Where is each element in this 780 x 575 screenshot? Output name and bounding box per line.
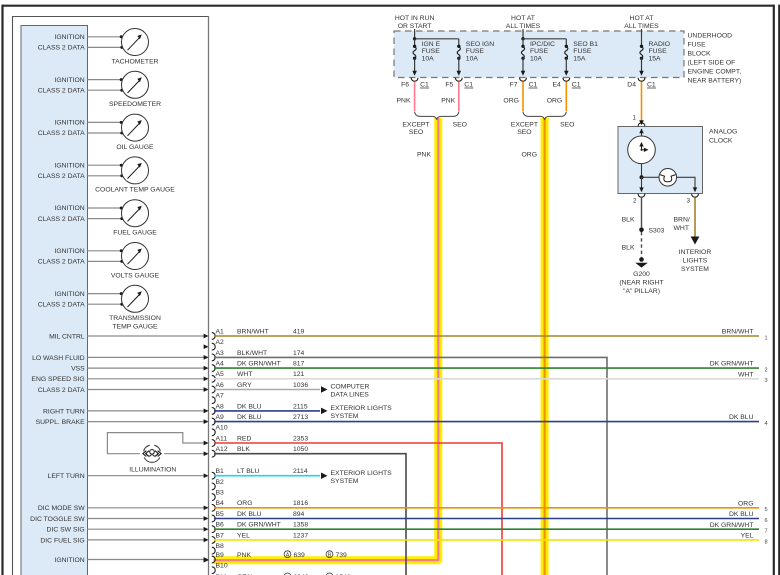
svg-text:ENGINE COMPT,: ENGINE COMPT,	[688, 69, 742, 76]
svg-text:ORG: ORG	[547, 98, 562, 105]
svg-text:INTERIOR: INTERIOR	[679, 249, 712, 256]
svg-text:ENG SPEED SIG: ENG SPEED SIG	[31, 376, 84, 383]
svg-text:IGNITION: IGNITION	[54, 205, 84, 212]
svg-text:(NEAR RIGHT: (NEAR RIGHT	[619, 280, 663, 287]
bus wire F7-E4	[523, 38, 566, 40]
svg-text:VOLTS GAUGE: VOLTS GAUGE	[111, 272, 160, 279]
svg-text:ALL TIMES: ALL TIMES	[624, 23, 659, 30]
svg-text:DK BLU: DK BLU	[237, 414, 262, 421]
analog clock component box	[618, 127, 703, 194]
connector pin A8	[212, 403, 308, 414]
svg-text:SUPPL. BRAKE: SUPPL. BRAKE	[36, 419, 86, 426]
ground G200	[619, 257, 663, 295]
svg-text:DK BLU: DK BLU	[237, 403, 262, 410]
svg-text:YEL: YEL	[741, 533, 754, 540]
connector pin A6	[212, 382, 309, 393]
svg-text:2: 2	[633, 198, 637, 205]
clock illumination bulb	[659, 169, 677, 187]
svg-text:A1: A1	[216, 328, 225, 335]
svg-text:BLK/WHT: BLK/WHT	[237, 350, 267, 357]
svg-text:FUSE: FUSE	[422, 48, 441, 55]
connector pin B1	[212, 468, 308, 479]
svg-text:CLASS 2 DATA: CLASS 2 DATA	[38, 216, 85, 223]
svg-text:RADIO: RADIO	[649, 41, 671, 48]
svg-text:A11: A11	[216, 435, 228, 442]
cluster signal wire: ENG SPEED SIG to pin A5	[31, 376, 208, 383]
svg-text:TEMP GAUGE: TEMP GAUGE	[112, 324, 158, 331]
wire ORG from E4	[565, 82, 567, 112]
svg-text:FUSE: FUSE	[688, 42, 707, 49]
svg-text:ALL TIMES: ALL TIMES	[506, 23, 541, 30]
svg-text:IGNITION: IGNITION	[54, 248, 84, 255]
wire DK GRN/WHT 1358 from pin B6 to right edge	[214, 528, 759, 530]
svg-text:419: 419	[293, 328, 305, 335]
svg-text:ORG: ORG	[237, 500, 252, 507]
connector pin A7	[212, 393, 224, 404]
underhood fuse block (dashed box)	[394, 31, 684, 78]
svg-text:HOT AT: HOT AT	[511, 15, 535, 22]
svg-text:B2: B2	[216, 479, 225, 486]
wire DK BLU 2115 from pin A8 to EXTERIOR LIGHTS SYSTEM	[214, 405, 392, 420]
svg-text:10A: 10A	[422, 55, 435, 62]
svg-text:DK GRN/WHT: DK GRN/WHT	[237, 361, 281, 368]
svg-text:FUSE: FUSE	[530, 48, 549, 55]
svg-text:SEO: SEO	[560, 122, 574, 129]
svg-text:2114: 2114	[293, 468, 308, 475]
svg-text:DK BLU: DK BLU	[237, 511, 262, 518]
unused pin A2 stub arrow	[204, 344, 209, 349]
svg-text:TRANSMISSION: TRANSMISSION	[109, 315, 161, 322]
gauge: speedometer	[38, 71, 161, 108]
svg-text:DK GRN/WHT: DK GRN/WHT	[710, 522, 754, 529]
fuse block pin F6 / C1	[401, 78, 429, 89]
connector pin A5	[212, 371, 305, 382]
svg-text:IGNITION: IGNITION	[54, 120, 84, 127]
svg-text:SYSTEM: SYSTEM	[331, 478, 359, 485]
svg-text:SEO: SEO	[409, 129, 423, 136]
svg-text:A4: A4	[216, 361, 225, 368]
gauge: volts gauge	[38, 243, 160, 280]
svg-text:2353: 2353	[293, 435, 308, 442]
svg-text:IGN E: IGN E	[422, 41, 441, 48]
svg-text:CLOCK: CLOCK	[709, 138, 733, 145]
illumination lamp	[129, 445, 176, 473]
svg-text:IGNITION: IGNITION	[54, 291, 84, 298]
svg-text:1: 1	[765, 335, 768, 341]
clock pin 1	[638, 123, 645, 126]
gauge: coolant temp gauge	[38, 157, 176, 194]
svg-text:BLOCK: BLOCK	[688, 51, 712, 58]
svg-text:B7: B7	[216, 532, 225, 539]
svg-text:EXCEPT: EXCEPT	[511, 122, 538, 129]
clock internal wire to pin 2	[639, 177, 643, 192]
svg-text:5: 5	[765, 507, 768, 513]
highlighted ORG circuit: fuse pair down off-page (yellow highlight)	[541, 118, 549, 575]
svg-text:B5: B5	[216, 511, 225, 518]
svg-text:A5: A5	[216, 371, 225, 378]
svg-text:PNK: PNK	[237, 552, 251, 559]
svg-text:B: B	[328, 553, 332, 559]
svg-text:C1: C1	[572, 81, 581, 88]
cluster signal wire: DIC SW SIG to pin B6	[47, 527, 209, 534]
svg-text:RED: RED	[237, 435, 251, 442]
svg-text:BLK: BLK	[622, 217, 635, 224]
fuse RADIO 15A	[639, 39, 670, 76]
svg-text:2115: 2115	[293, 403, 308, 410]
svg-text:ORG: ORG	[522, 152, 537, 159]
partially visible pin B11 row	[237, 573, 351, 575]
svg-text:LEFT TURN: LEFT TURN	[48, 473, 85, 480]
wire WHT 121 from pin A5 to right edge	[214, 378, 759, 380]
svg-text:4: 4	[765, 421, 768, 427]
svg-text:DATA LINES: DATA LINES	[331, 392, 370, 399]
connector pin A10	[212, 425, 228, 436]
svg-text:S303: S303	[649, 227, 665, 234]
connector pin B8	[212, 543, 224, 554]
svg-text:10A: 10A	[466, 55, 479, 62]
svg-text:A2: A2	[216, 339, 225, 346]
wire BRN/WHT 419 from pin A1 to right edge	[214, 335, 759, 337]
gauge: oil gauge	[38, 114, 154, 151]
svg-text:10A: 10A	[530, 55, 543, 62]
fuse IGN E 10A	[412, 39, 440, 76]
svg-text:1050: 1050	[293, 446, 308, 453]
svg-text:DIC TOGGLE SW: DIC TOGGLE SW	[30, 516, 85, 523]
cluster signal wire: MIL CNTRL to pin A1	[49, 333, 208, 340]
svg-text:EXTERIOR LIGHTS: EXTERIOR LIGHTS	[331, 405, 393, 412]
bus wire F6-F5	[415, 38, 459, 40]
right-edge label ORG / continuation 5	[738, 500, 768, 513]
svg-text:15A: 15A	[573, 55, 586, 62]
connector pin B2	[212, 479, 224, 490]
ORG wires merge brace	[511, 112, 575, 136]
svg-text:WHT: WHT	[738, 371, 753, 378]
svg-text:LO WASH FLUID: LO WASH FLUID	[32, 355, 85, 362]
svg-text:TACHOMETER: TACHOMETER	[111, 58, 158, 65]
svg-text:VSS: VSS	[71, 366, 85, 373]
svg-text:894: 894	[293, 511, 305, 518]
svg-text:CLASS 2 DATA: CLASS 2 DATA	[38, 301, 85, 308]
right-edge label BRN/WHT / continuation 1	[722, 329, 768, 342]
svg-text:A3: A3	[216, 350, 225, 357]
svg-text:IGNITION: IGNITION	[54, 34, 84, 41]
clock internal wire to junction	[641, 164, 643, 178]
right-edge label DK GRN/WHT / continuation 7	[710, 522, 768, 535]
svg-text:D4: D4	[627, 81, 636, 88]
wire LT BLU 2114 from pin B1 to EXTERIOR LIGHTS SYSTEM	[214, 470, 392, 485]
connector pin A1	[212, 328, 305, 339]
wire BLK from clock pin 2	[622, 198, 642, 228]
junction node	[640, 175, 644, 179]
svg-text:CLASS 2 DATA: CLASS 2 DATA	[38, 87, 85, 94]
feed: HOT IN RUN OR START	[395, 15, 435, 40]
wire junction to lamp	[642, 176, 660, 178]
svg-text:LIGHTS: LIGHTS	[683, 258, 708, 265]
svg-text:PNK: PNK	[397, 98, 411, 105]
svg-text:IGNITION: IGNITION	[54, 162, 84, 169]
svg-text:2713: 2713	[293, 414, 308, 421]
connector pin B6	[212, 522, 309, 533]
svg-text:ILLUMINATION: ILLUMINATION	[129, 467, 176, 474]
svg-text:BLK: BLK	[622, 245, 635, 252]
gauge: tachometer	[38, 29, 159, 66]
svg-text:F6: F6	[401, 81, 409, 88]
svg-text:WHT: WHT	[237, 371, 252, 378]
svg-text:"A" PILLAR): "A" PILLAR)	[623, 288, 660, 295]
cluster signal-name strip (blue box)	[21, 26, 88, 575]
svg-text:CLASS 2 DATA: CLASS 2 DATA	[38, 387, 85, 394]
svg-text:A: A	[286, 553, 290, 559]
connector pin B9	[212, 552, 252, 563]
underhood fuse block caption	[688, 33, 742, 85]
connector pin A11	[212, 435, 309, 446]
arrow to interior lights system	[679, 237, 712, 274]
splice S303	[639, 227, 664, 234]
svg-text:A6: A6	[216, 382, 225, 389]
svg-text:B3: B3	[216, 490, 225, 497]
connector pin A3	[212, 350, 305, 361]
svg-text:8: 8	[765, 539, 768, 545]
svg-text:3: 3	[765, 378, 768, 384]
svg-text:SYSTEM: SYSTEM	[331, 413, 359, 420]
cluster signal wire: RIGHT TURN to pin A8	[43, 408, 208, 415]
svg-text:6: 6	[765, 518, 768, 524]
highlighted PNK circuit: fuse pair to pin B9 (yellow highlight)	[204, 118, 439, 563]
svg-text:A7: A7	[216, 393, 225, 400]
svg-text:CLASS 2 DATA: CLASS 2 DATA	[38, 45, 85, 52]
svg-text:UNDERHOOD: UNDERHOOD	[688, 33, 733, 40]
connector pin A12	[212, 446, 309, 457]
fuse block pin F7 / C1	[510, 78, 538, 89]
wire ORG from F7	[522, 82, 524, 112]
svg-text:3: 3	[686, 198, 690, 205]
cluster signal wire: LEFT TURN to pin B1	[48, 473, 209, 480]
svg-text:DK BLU: DK BLU	[729, 511, 754, 518]
wire ORG 1816 from pin B4 to right edge	[214, 507, 759, 509]
svg-text:G200: G200	[633, 271, 650, 278]
feed: HOT AT ALL TIMES (IPC/DIC)	[506, 15, 541, 40]
svg-text:MIL CNTRL: MIL CNTRL	[49, 333, 85, 340]
svg-text:HOT AT: HOT AT	[630, 15, 654, 22]
cluster signal wire: VSS to pin A4	[71, 366, 208, 373]
clock pin 2	[633, 194, 645, 205]
wire DK GRN/WHT 817 from pin A4 to right edge	[214, 367, 759, 369]
svg-text:DK GRN/WHT: DK GRN/WHT	[710, 361, 754, 368]
fuse SEO IGN 10A	[457, 39, 495, 76]
svg-text:1237: 1237	[293, 532, 308, 539]
wire PNK from F6	[414, 82, 416, 112]
svg-text:OIL GAUGE: OIL GAUGE	[116, 144, 154, 151]
svg-text:PNK: PNK	[441, 98, 455, 105]
fuse block pin F5 / C1	[445, 78, 473, 89]
svg-text:IGNITION: IGNITION	[54, 77, 84, 84]
svg-text:C1: C1	[464, 81, 473, 88]
cluster signal wire: CLASS 2 DATA to pin A6	[38, 387, 209, 394]
svg-text:IPC/DIC: IPC/DIC	[530, 41, 555, 48]
svg-text:SEO: SEO	[453, 122, 467, 129]
connector pin A9	[212, 414, 309, 425]
svg-text:817: 817	[293, 361, 305, 368]
wire DK BLU 894 from pin B5 to right edge	[214, 518, 759, 520]
svg-text:COMPUTER: COMPUTER	[331, 384, 370, 391]
connector pin B4	[212, 500, 309, 511]
svg-text:ORG: ORG	[503, 98, 518, 105]
clock face	[628, 129, 656, 164]
svg-text:1036: 1036	[293, 382, 308, 389]
connector pin B5	[212, 511, 305, 522]
fuse block pin D4 / C1	[627, 78, 656, 89]
svg-text:SPEEDOMETER: SPEEDOMETER	[109, 101, 161, 108]
svg-text:A8: A8	[216, 403, 225, 410]
svg-text:ANALOG: ANALOG	[709, 129, 737, 136]
instrument cluster component box	[12, 16, 209, 575]
svg-text:NEAR BATTERY): NEAR BATTERY)	[688, 78, 742, 85]
connector pin A4	[212, 361, 305, 372]
svg-text:FUSE: FUSE	[466, 48, 485, 55]
cluster signal wire: DIC FUEL SIG to pin B7	[40, 537, 208, 544]
cluster signal wire: LO WASH FLUID to pin A3	[32, 355, 208, 362]
connector pin B10	[212, 563, 228, 574]
PNK wires merge brace	[402, 112, 467, 136]
svg-text:BRN/WHT: BRN/WHT	[237, 328, 269, 335]
fuse SEO B1 15A	[564, 39, 598, 76]
svg-text:SEO: SEO	[517, 129, 531, 136]
svg-text:FUEL GAUGE: FUEL GAUGE	[113, 230, 157, 237]
svg-text:SEO IGN: SEO IGN	[466, 41, 494, 48]
feed: HOT AT ALL TIMES (RADIO)	[624, 15, 659, 39]
wire PNK from F5	[458, 82, 460, 112]
svg-text:A9: A9	[216, 414, 225, 421]
svg-text:OR START: OR START	[398, 23, 432, 30]
wire ORG from D4 to clock pin 1	[633, 82, 644, 125]
svg-text:639: 639	[294, 552, 306, 559]
svg-text:DIC SW SIG: DIC SW SIG	[47, 527, 85, 534]
clock pin 3	[686, 194, 698, 205]
svg-text:CLASS 2 DATA: CLASS 2 DATA	[38, 173, 85, 180]
svg-text:739: 739	[336, 552, 348, 559]
svg-text:PNK: PNK	[417, 152, 431, 159]
svg-text:CLASS 2 DATA: CLASS 2 DATA	[38, 259, 85, 266]
cluster signal wire: DIC TOGGLE SW to pin B5	[30, 516, 208, 523]
svg-text:B4: B4	[216, 500, 225, 507]
pin B9 circuit ids A 639 / B 739	[284, 551, 347, 559]
svg-text:2: 2	[765, 368, 768, 374]
svg-text:YEL: YEL	[237, 532, 250, 539]
svg-text:WHT: WHT	[674, 225, 689, 232]
svg-text:DK GRN/WHT: DK GRN/WHT	[237, 522, 281, 529]
svg-text:F7: F7	[510, 81, 518, 88]
illumination lamp wiring to pin A12	[164, 451, 208, 456]
svg-text:RIGHT TURN: RIGHT TURN	[43, 408, 85, 415]
svg-text:C1: C1	[529, 81, 538, 88]
right-edge label DK GRN/WHT / continuation 2	[710, 361, 768, 374]
svg-text:(LEFT SIDE OF: (LEFT SIDE OF	[688, 60, 736, 67]
svg-text:DIC FUEL SIG: DIC FUEL SIG	[40, 537, 84, 544]
right-edge label DK BLU / continuation 6	[729, 511, 768, 524]
svg-text:F5: F5	[445, 81, 453, 88]
svg-text:121: 121	[293, 371, 305, 378]
svg-text:LT BLU: LT BLU	[237, 468, 260, 475]
svg-text:B1: B1	[216, 468, 225, 475]
svg-text:A12: A12	[216, 446, 228, 453]
connector pin A2	[212, 339, 224, 350]
right-edge label DK BLU / continuation 4	[729, 414, 768, 427]
fuse IPC/DIC 10A	[521, 39, 555, 76]
svg-text:B8: B8	[216, 543, 225, 550]
connector pin B7	[212, 532, 309, 543]
svg-text:DIC MODE SW: DIC MODE SW	[38, 505, 85, 512]
svg-text:B6: B6	[216, 522, 225, 529]
wire YEL 1237 from pin B7 to right edge	[214, 539, 759, 541]
svg-text:IGNITION: IGNITION	[54, 557, 84, 564]
svg-text:SYSTEM: SYSTEM	[681, 266, 709, 273]
gauge: fuel gauge	[38, 200, 158, 237]
svg-text:B9: B9	[216, 552, 225, 559]
right-edge label YEL / continuation 8	[741, 533, 768, 546]
cluster signal wire: SUPPL. BRAKE to pin A9	[36, 419, 209, 426]
svg-text:B10: B10	[216, 563, 228, 570]
svg-text:GRY: GRY	[237, 382, 252, 389]
svg-text:EXCEPT: EXCEPT	[402, 122, 429, 129]
svg-text:BLK: BLK	[237, 446, 250, 453]
right-edge label WHT / continuation 3	[738, 371, 768, 384]
svg-text:1358: 1358	[293, 522, 308, 529]
svg-text:7: 7	[765, 529, 768, 535]
svg-text:C1: C1	[647, 81, 656, 88]
svg-text:15A: 15A	[649, 55, 662, 62]
svg-text:174: 174	[293, 350, 305, 357]
svg-text:FUSE: FUSE	[573, 48, 592, 55]
wire lamp to pin 3	[677, 177, 695, 188]
svg-text:CLASS 2 DATA: CLASS 2 DATA	[38, 130, 85, 137]
svg-text:A10: A10	[216, 425, 228, 432]
wire BLK/WHT 174 from pin A3, turns down	[214, 357, 607, 575]
wire DK BLU 2713 from pin A9 to right edge	[214, 421, 759, 423]
wire RED 2353 from pin A11, turns down	[214, 443, 502, 575]
connector pin B11	[212, 574, 252, 575]
cluster signal wire: IGNITION to pin B9	[54, 557, 208, 564]
connector pin B3	[212, 490, 224, 501]
wire GRY 1036 from pin A6 to COMPUTER DATA LINES	[214, 384, 369, 399]
svg-text:1816: 1816	[293, 500, 308, 507]
svg-text:SEO B1: SEO B1	[573, 41, 598, 48]
svg-text:1: 1	[633, 115, 637, 122]
svg-text:E4: E4	[552, 81, 561, 88]
wire BLK 1050 from pin A12, turns down	[214, 454, 406, 575]
fuse block pin E4 / C1	[552, 78, 580, 89]
wire BLK from S303 to ground (dashed)	[622, 232, 642, 258]
illumination lamp wiring to pin A11	[107, 433, 208, 454]
svg-text:FUSE: FUSE	[649, 48, 668, 55]
svg-text:HOT IN RUN: HOT IN RUN	[395, 15, 435, 22]
svg-text:BRN/WHT: BRN/WHT	[722, 329, 754, 336]
svg-text:COOLANT TEMP GAUGE: COOLANT TEMP GAUGE	[95, 187, 175, 194]
wire BRN/WHT from clock pin 3	[674, 198, 696, 238]
svg-text:DK BLU: DK BLU	[729, 414, 754, 421]
svg-text:ORG: ORG	[738, 500, 753, 507]
svg-text:EXTERIOR LIGHTS: EXTERIOR LIGHTS	[331, 470, 393, 477]
svg-text:C1: C1	[420, 81, 429, 88]
cluster signal wire: DIC MODE SW to pin B4	[38, 505, 209, 512]
gauge: transmission temp gauge	[38, 285, 161, 330]
svg-text:BRN/: BRN/	[674, 217, 690, 224]
